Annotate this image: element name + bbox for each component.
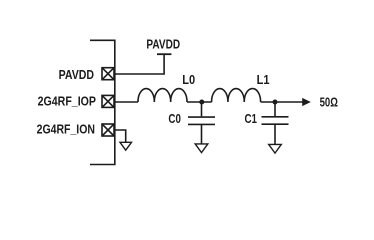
capacitor C0 plates (188, 117, 215, 124)
svg-text:2G4RF_ION: 2G4RF_ION (37, 122, 95, 137)
node junction dot at C1 (273, 100, 278, 105)
wire C0 to ground (201, 125, 203, 144)
wire PAVDD pin to supply stem (115, 54, 164, 74)
pin pad PAVDD (102, 68, 114, 80)
chip edge (IC boundary) (90, 40, 115, 164)
svg-text:PAVDD: PAVDD (146, 36, 180, 51)
ground symbol under C0 (195, 144, 208, 153)
ground symbol at 2G4RF_ION (120, 142, 132, 150)
svg-text:L0: L0 (182, 72, 195, 87)
wire L1 to output arrow (261, 101, 304, 103)
wire node to capacitor C1 (274, 102, 276, 116)
wire C1 to ground (274, 125, 276, 145)
wire 2G4RF_IOP pin to L0 (115, 101, 138, 103)
svg-text:C0: C0 (168, 111, 181, 126)
svg-text:50Ω: 50Ω (320, 95, 338, 110)
svg-text:C1: C1 (245, 111, 258, 126)
PAVDD supply bar (157, 53, 171, 55)
wire 2G4RF_ION pin to ground (115, 130, 126, 142)
svg-text:2G4RF_IOP: 2G4RF_IOP (38, 94, 97, 109)
ground symbol under C1 (269, 144, 282, 153)
output arrowhead (302, 98, 311, 106)
node junction dot at C0 (199, 100, 204, 105)
wire node to capacitor C0 (201, 102, 203, 116)
svg-text:PAVDD: PAVDD (59, 67, 94, 82)
capacitor C1 plates (262, 117, 289, 124)
inductor L1 (212, 89, 261, 102)
pin pad 2G4RF_ION (102, 124, 114, 136)
pin pad 2G4RF_IOP (102, 95, 114, 107)
svg-text:L1: L1 (257, 72, 270, 87)
wire L0 to L1 (node C0) (187, 101, 212, 103)
inductor L0 (138, 89, 187, 102)
